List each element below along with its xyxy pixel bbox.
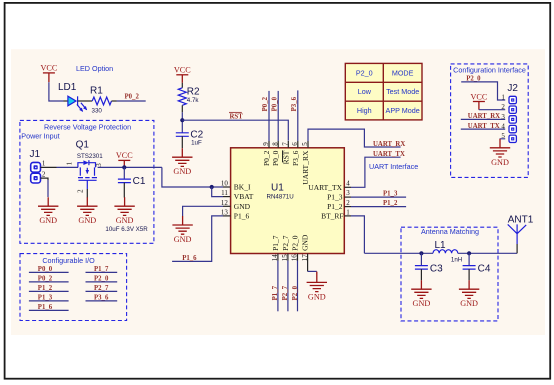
svg-text:Power Input: Power Input: [21, 131, 59, 140]
junction RST node: [180, 118, 184, 122]
svg-text:STS2301: STS2301: [77, 153, 103, 160]
svg-text:P1_7: P1_7: [272, 285, 279, 300]
capacitor C3: [415, 253, 443, 280]
mode table: [345, 63, 422, 120]
svg-text:330: 330: [92, 107, 103, 114]
connector J2: [501, 83, 518, 143]
wire RST to U1 pin7: [182, 120, 288, 141]
svg-text:RST: RST: [230, 114, 244, 121]
wire UART_RX to J2 pin3: [461, 118, 505, 120]
svg-text:P2_0: P2_0: [356, 69, 373, 78]
svg-text:3: 3: [501, 113, 505, 121]
wire R2 to C2: [181, 105, 183, 112]
wire bottom pin 16: [297, 254, 299, 261]
wire BT_RF row into matching network: [364, 252, 433, 254]
svg-text:UART_TX: UART_TX: [373, 151, 405, 158]
svg-text:GND: GND: [234, 202, 251, 211]
ground (U1 pin17): [307, 273, 327, 301]
svg-text:P3_6: P3_6: [291, 96, 298, 111]
power VCC (J2): [470, 92, 487, 101]
svg-text:4: 4: [346, 180, 350, 188]
svg-text:P2_7: P2_7: [281, 235, 290, 251]
svg-text:Low: Low: [358, 87, 372, 96]
svg-text:P0_0: P0_0: [271, 96, 278, 111]
wire P0_0 stub: [277, 91, 279, 141]
svg-text:P0_2: P0_2: [262, 150, 271, 166]
svg-text:P1_7: P1_7: [271, 235, 280, 251]
power VCC (reset branch): [174, 66, 191, 75]
svg-text:Reverse Voltage Protection: Reverse Voltage Protection: [44, 122, 131, 131]
ground (C1): [114, 197, 134, 225]
svg-text:1nH: 1nH: [451, 257, 462, 264]
svg-text:P2_0: P2_0: [291, 235, 300, 251]
capacitor C2 1uF: [176, 130, 204, 149]
wire R1 to net P0_2: [112, 100, 117, 102]
wire VCC to J2 pin2: [479, 109, 505, 111]
svg-text:C1: C1: [133, 176, 146, 187]
pin stubs top: [269, 141, 308, 148]
wire J1 pin1 to Q1: [40, 166, 56, 168]
ground (Q1 gate): [77, 197, 97, 225]
svg-text:J1: J1: [30, 149, 41, 160]
svg-text:12: 12: [221, 199, 229, 207]
wire bottom pin 14: [277, 254, 279, 261]
wire LD1 cathode to R1: [78, 100, 93, 102]
svg-text:R1: R1: [90, 86, 103, 97]
svg-text:UART_TX: UART_TX: [308, 183, 342, 192]
wire Q1 to VCC node: [98, 166, 162, 168]
Reverse Voltage Protection box: [20, 120, 154, 243]
svg-text:J2: J2: [507, 83, 518, 94]
svg-text:R2: R2: [187, 87, 200, 98]
wire UART_RX from pin5: [308, 129, 401, 147]
svg-text:Configurable I/O: Configurable I/O: [42, 256, 95, 265]
power VCC (input rail): [116, 151, 133, 160]
wire P0_2 stub: [268, 91, 270, 141]
svg-text:RN4871U: RN4871U: [267, 194, 294, 201]
wire P1_2 from pin2: [344, 206, 351, 208]
junction C3 node: [419, 251, 423, 255]
ground (C4): [459, 280, 479, 308]
svg-text:P0_0: P0_0: [271, 150, 280, 166]
svg-text:LED Option: LED Option: [76, 64, 113, 73]
wire L1 to antenna: [458, 252, 517, 254]
wire UART_TX to J2 pin4: [461, 128, 505, 130]
svg-text:P1_6: P1_6: [234, 212, 250, 221]
svg-text:5: 5: [501, 132, 505, 140]
svg-text:BT_RF: BT_RF: [321, 212, 344, 221]
LED LD1: [58, 82, 87, 111]
svg-text:P1_6: P1_6: [182, 255, 197, 262]
svg-text:High: High: [357, 106, 372, 115]
resistor R1 330: [90, 86, 111, 115]
svg-text:4: 4: [501, 123, 505, 131]
svg-text:1uF: 1uF: [191, 140, 202, 147]
Configuration Interface box: [451, 64, 529, 177]
wire VBAT stub: [212, 187, 223, 197]
svg-text:2: 2: [346, 199, 350, 207]
ground (J2): [490, 139, 510, 167]
capacitor C4: [463, 253, 491, 280]
svg-text:MODE: MODE: [392, 69, 414, 78]
wire P3_6 stub: [297, 90, 299, 141]
svg-text:P1_3: P1_3: [383, 191, 398, 198]
transistor Q1 STS2301: [66, 140, 104, 198]
junction BK_I/VBAT: [210, 185, 214, 189]
wire J1 pin2 to ground: [40, 178, 48, 180]
wire P2_0 to J2 pin1: [461, 82, 505, 100]
svg-text:3: 3: [95, 163, 103, 167]
svg-text:10uF 6.3V X5R: 10uF 6.3V X5R: [105, 226, 148, 233]
svg-text:P2_0: P2_0: [292, 285, 299, 300]
svg-text:C3: C3: [430, 263, 443, 274]
svg-text:BK_I: BK_I: [234, 183, 251, 192]
ground (C2): [172, 148, 192, 176]
junction C4 node: [467, 251, 471, 255]
connector J1: [30, 149, 46, 183]
op-amp/IC U1 RN4871U: [231, 148, 345, 254]
wire bottom pin 15: [287, 254, 289, 261]
svg-text:C4: C4: [478, 263, 491, 274]
svg-text:L1: L1: [435, 240, 447, 251]
svg-text:3: 3: [346, 189, 350, 197]
power VCC net (LED branch): [40, 64, 57, 73]
svg-text:4.7k: 4.7k: [187, 97, 200, 104]
junction VCC/C1: [122, 165, 126, 169]
svg-text:P1_3: P1_3: [327, 193, 343, 202]
svg-text:1: 1: [346, 208, 350, 216]
antenna ANT1: [508, 215, 534, 254]
svg-text:1: 1: [66, 161, 74, 165]
capacitor C1: [118, 167, 146, 197]
svg-text:2: 2: [42, 171, 46, 179]
wire UART_TX from pin4: [344, 186, 351, 188]
svg-text:11: 11: [221, 189, 228, 197]
svg-text:U1: U1: [271, 183, 284, 194]
wire VCC to LD1 anode: [49, 82, 64, 101]
ground (C3): [411, 280, 431, 308]
svg-text:13: 13: [221, 208, 229, 216]
wire BT_RF from pin1 to antenna row: [344, 215, 351, 217]
svg-text:Configuration Interface: Configuration Interface: [453, 66, 526, 75]
inductor L1 1nH: [433, 240, 462, 264]
svg-text:LD1: LD1: [58, 82, 77, 93]
wire pin 17 to ground: [307, 254, 309, 272]
svg-text:2: 2: [501, 103, 505, 111]
svg-text:10: 10: [221, 180, 229, 188]
ground (J1): [38, 197, 58, 225]
svg-text:P2_7: P2_7: [282, 285, 289, 300]
svg-text:P1_2: P1_2: [383, 200, 398, 207]
svg-text:P3_6: P3_6: [291, 150, 300, 166]
svg-text:ANT1: ANT1: [508, 215, 534, 226]
resistor R2 4.7k: [178, 87, 200, 106]
svg-text:2: 2: [76, 189, 84, 193]
svg-text:UART_RX: UART_RX: [373, 141, 405, 148]
svg-text:P1_2: P1_2: [327, 202, 343, 211]
svg-text:UART_RX: UART_RX: [301, 150, 310, 185]
wire VCC rail to U1 BK_I: [162, 167, 223, 187]
wire P1_3 from pin3: [344, 196, 351, 198]
ground (U1 pin12): [172, 216, 192, 244]
svg-text:1: 1: [42, 160, 46, 168]
svg-text:APP Mode: APP Mode: [386, 106, 420, 115]
svg-text:Q1: Q1: [76, 140, 90, 151]
svg-text:Test Mode: Test Mode: [386, 87, 419, 96]
svg-text:Antenna Matching: Antenna Matching: [421, 227, 479, 236]
svg-text:P0_2: P0_2: [125, 94, 140, 101]
svg-text:GND: GND: [301, 234, 310, 251]
svg-text:1: 1: [501, 93, 505, 101]
svg-text:UART Interface: UART Interface: [369, 162, 418, 171]
wire J2 pin5 to ground: [500, 138, 505, 140]
Configurable I/O box: [20, 254, 127, 321]
pin 13 wire to node P1_6: [223, 215, 231, 217]
pin 12 GND stubs/wire: [223, 205, 231, 207]
svg-text:VBAT: VBAT: [234, 192, 254, 201]
svg-text:P0_2: P0_2: [262, 96, 269, 111]
Antenna Matching box: [401, 227, 498, 321]
